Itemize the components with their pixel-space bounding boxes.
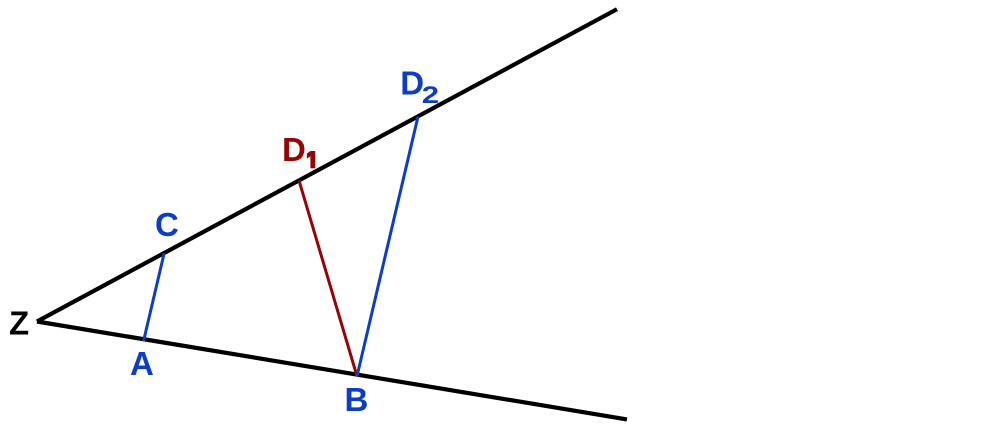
svg-text:D: D <box>400 64 424 101</box>
svg-text:D: D <box>282 131 306 168</box>
svg-text:B: B <box>345 381 369 418</box>
svg-text:2: 2 <box>422 82 439 109</box>
svg-text:A: A <box>130 345 154 382</box>
svg-text:C: C <box>155 206 179 243</box>
svg-text:Z: Z <box>9 305 29 342</box>
